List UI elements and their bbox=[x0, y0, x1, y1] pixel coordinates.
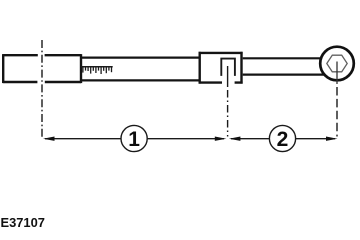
inner tie rod body (left rectangle, gapped for centerline) bbox=[3, 54, 81, 83]
svg-text:2: 2 bbox=[277, 128, 289, 151]
centerline B (from clamp slot down) bbox=[227, 66, 229, 87]
dimension line 2 bbox=[231, 138, 335, 140]
adjuster block (outer, gapped bottom for centerline) bbox=[199, 52, 243, 84]
thread scale line bbox=[81, 66, 113, 68]
ball joint end circle bbox=[320, 47, 354, 81]
svg-text:E37107: E37107 bbox=[1, 215, 45, 230]
centerline A (dash-dot through rod body) bbox=[41, 40, 43, 137]
clamp slot (inner U, open bottom) bbox=[221, 59, 235, 76]
outer rod (thin, to ball end) bbox=[243, 58, 330, 74]
balloon 2 circle bbox=[269, 125, 295, 151]
threaded rod (middle section) bbox=[82, 58, 200, 81]
dimension line 1 bbox=[45, 138, 224, 140]
hex flats inside ball end bbox=[327, 55, 347, 72]
dim 2 left arrowhead bbox=[229, 137, 241, 141]
centerline C (from hex center down) bbox=[336, 62, 338, 85]
dim 1 left arrowhead bbox=[43, 137, 55, 141]
dim 1 right arrowhead bbox=[215, 137, 227, 141]
thread scale ticks bbox=[83, 67, 112, 74]
dim 2 right arrowhead bbox=[326, 137, 338, 141]
svg-text:1: 1 bbox=[128, 128, 140, 151]
balloon 1 circle bbox=[121, 125, 147, 151]
